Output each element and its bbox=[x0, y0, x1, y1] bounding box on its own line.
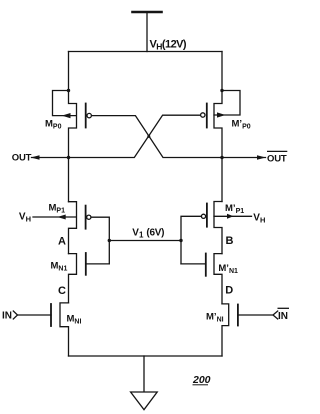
svg-text:IN: IN bbox=[2, 311, 12, 322]
transistor MP0 bbox=[53, 52, 92, 158]
svg-text:OUT: OUT bbox=[12, 152, 32, 163]
transistor M'P1 bbox=[201, 202, 251, 254]
svg-text:V1(6V): V1(6V) bbox=[132, 227, 164, 239]
node V1 wire bbox=[109, 240, 181, 242]
transistor MNI bbox=[13, 303, 68, 356]
svg-text:200: 200 bbox=[192, 374, 211, 386]
svg-text:IN: IN bbox=[278, 311, 288, 322]
ground bbox=[131, 356, 158, 410]
node OUT net wire bbox=[31, 115, 200, 160]
junction right drain / OUTbar bbox=[220, 156, 223, 159]
junction MP0 source tap bbox=[67, 89, 70, 92]
power rail VH bbox=[133, 12, 162, 52]
junction cross-over point bbox=[147, 135, 150, 138]
wire right drain down bbox=[221, 158, 223, 202]
node OUTbar net wire bbox=[92, 116, 266, 160]
transistor M'N1 bbox=[181, 254, 222, 304]
wire MP1 gate to V1 bbox=[91, 217, 109, 264]
svg-text:C: C bbox=[58, 285, 66, 297]
svg-text:A: A bbox=[58, 236, 66, 248]
transistor M'NI bbox=[222, 304, 278, 356]
wire top rail bbox=[69, 51, 223, 53]
junction M'P0 source tap bbox=[220, 89, 223, 92]
wire left drain down bbox=[68, 158, 70, 202]
wire bottom rail bbox=[69, 355, 223, 357]
label OUTbar bbox=[267, 151, 287, 164]
transistor MN1 bbox=[69, 253, 110, 303]
label INbar bbox=[278, 308, 290, 322]
svg-text:B: B bbox=[226, 235, 234, 247]
figure reference 200 bbox=[192, 374, 211, 386]
svg-text:D: D bbox=[225, 285, 233, 297]
svg-text:OUT: OUT bbox=[267, 153, 287, 164]
junction V1 right bbox=[179, 239, 182, 242]
junction V1 left bbox=[108, 239, 111, 242]
junction left drain / OUT bbox=[67, 156, 70, 159]
transistor MP1 bbox=[33, 202, 91, 254]
svg-text:VH(12V): VH(12V) bbox=[150, 38, 187, 51]
wire M'P1 gate to V1 bbox=[181, 216, 201, 264]
transistor M'P0 bbox=[201, 52, 240, 158]
